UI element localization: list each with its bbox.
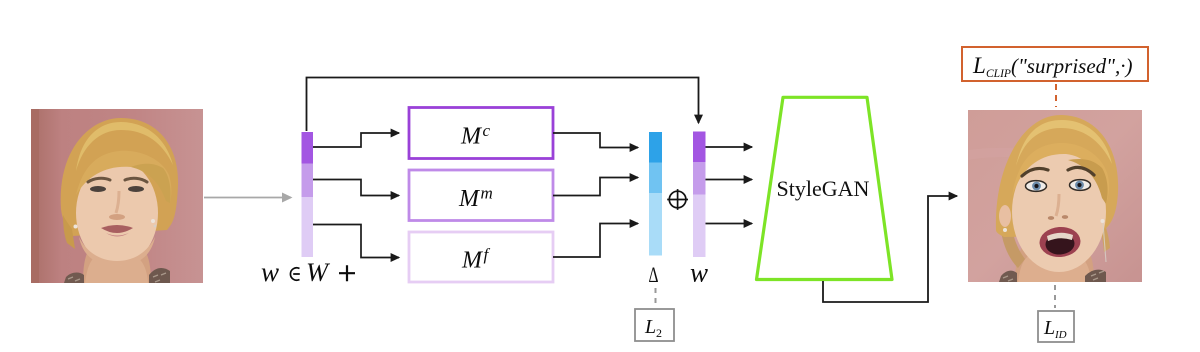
svg-text:W: W [306,257,331,287]
svg-text:L: L [644,316,656,338]
wire w to stylegan 1 [706,146,753,148]
output photo (woman, surprised) [968,110,1142,282]
mapper box Mf [409,232,553,282]
StyleGAN generator trapezoid [757,97,893,279]
dashed wire clip loss [1055,84,1057,107]
wire bar to Mc [313,133,399,147]
w bar [693,132,706,258]
dashed wire Lid [1054,285,1056,308]
svg-text:L: L [972,53,986,78]
svg-text:M: M [458,186,481,212]
svg-text:2: 2 [656,326,662,340]
svg-text:w: w [690,258,708,288]
wire Mm to delta [553,178,638,196]
svg-text:m: m [481,184,493,203]
svg-text:M: M [460,124,483,150]
svg-text:M: M [461,248,484,274]
latent bar w∈W+ [302,132,314,257]
label w ∈ W + [261,257,355,287]
svg-text:c: c [483,121,491,140]
input photo (woman, neutral) [31,109,203,283]
wire bar to Mf [313,225,399,258]
CLIP loss box [962,47,1148,81]
delta bar [649,132,662,256]
svg-text:StyleGAN: StyleGAN [777,176,870,201]
wire bar to Mm [313,180,399,196]
ID loss box [1038,311,1074,342]
wire skip connection [307,78,699,132]
wire Mf to delta [553,224,638,258]
wire stylegan output [823,196,957,302]
L2 loss box [635,309,674,341]
svg-text:ID: ID [1054,329,1067,341]
svg-text:L: L [1043,317,1055,339]
svg-text:Δ: Δ [649,262,659,287]
wire w to stylegan 2 [706,179,753,181]
svg-text:w: w [261,257,279,287]
oplus symbol [667,189,688,210]
wire w to stylegan 3 [706,223,753,225]
wire Mc to delta [553,133,638,148]
wire gray input arrow [204,197,291,199]
mapper box Mm [409,170,553,221]
svg-text:CLIP: CLIP [986,68,1011,80]
svg-text:("surprised",·): ("surprised",·) [1011,54,1132,78]
dashed wire L2 [655,288,657,307]
mapper box Mc [409,108,553,159]
